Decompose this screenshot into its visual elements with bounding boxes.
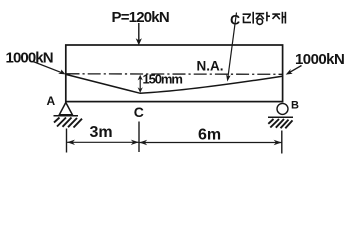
load P arrow: [136, 23, 142, 45]
svg-text:B: B: [291, 100, 299, 112]
tendon label 재 (Hangul): [272, 12, 285, 24]
svg-text:1000kN: 1000kN: [6, 49, 53, 66]
leader arrow from tendon label to tendon: [226, 13, 236, 82]
eccentricity dimension arrow 150mm: [138, 75, 143, 93]
svg-text:6m: 6m: [198, 127, 221, 144]
dimension line 3m: [67, 140, 139, 145]
dimension line 6m: [139, 140, 281, 145]
beam outline: [66, 45, 283, 102]
left leader arrow: [33, 62, 66, 75]
svg-text:150mm: 150mm: [143, 72, 183, 87]
support A ground line: [54, 115, 79, 117]
tendon profile (draped cable): [66, 75, 282, 94]
tendon label 긴 (Hangul): [243, 12, 254, 24]
dimension extension tick at C: [138, 122, 140, 153]
support B roller (circle): [277, 103, 288, 114]
neutral axis N.A. dash-dot line: [67, 73, 283, 76]
svg-text:1000kN: 1000kN: [295, 51, 344, 68]
support B hatching: [268, 119, 292, 128]
svg-text:P=120kN: P=120kN: [112, 9, 169, 26]
svg-text:3m: 3m: [90, 124, 113, 141]
right leader arrow: [286, 66, 302, 75]
support A hatching: [54, 118, 82, 128]
dimension extension tick at B: [281, 131, 283, 154]
tendon label 장 (Hangul): [256, 12, 270, 25]
svg-text:A: A: [47, 94, 56, 108]
support A pin (triangle): [59, 103, 72, 115]
dimension extension tick at A: [66, 129, 68, 153]
svg-text:C: C: [134, 104, 144, 120]
svg-text:N.A.: N.A.: [197, 58, 224, 73]
support B ground line: [268, 116, 293, 118]
